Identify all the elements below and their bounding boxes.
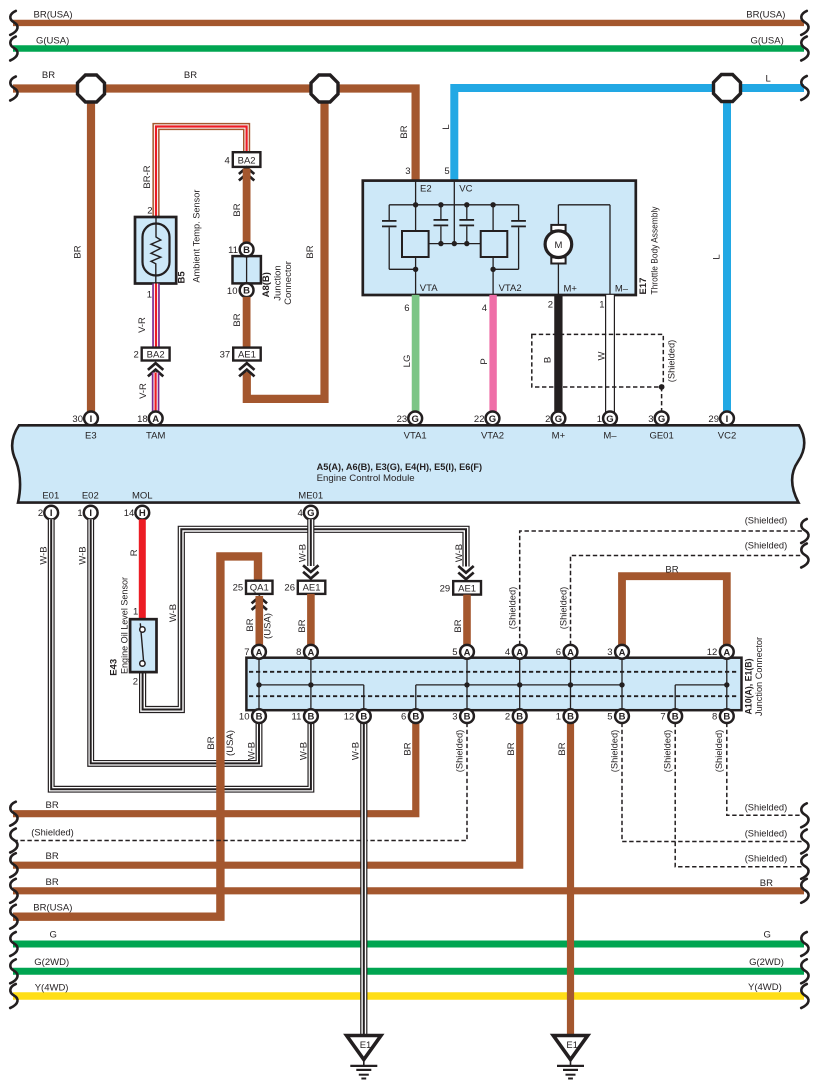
svg-text:A10(A), E1(B): A10(A), E1(B) — [744, 659, 755, 715]
svg-text:37: 37 — [220, 349, 231, 360]
svg-text:6: 6 — [401, 712, 406, 723]
svg-text:W-B: W-B — [247, 742, 258, 760]
pin 2 label E43 — [133, 677, 138, 688]
A10 pin 3A — [607, 645, 629, 659]
A10 pin 12B — [344, 709, 371, 723]
ground E1 right — [553, 1036, 587, 1079]
A10 pin 1B — [556, 709, 578, 723]
svg-text:3: 3 — [405, 166, 410, 177]
svg-text:B: B — [672, 712, 679, 723]
svg-text:(Shielded): (Shielded) — [745, 515, 788, 526]
svg-text:(Shielded): (Shielded) — [745, 541, 788, 552]
wire BR from A8(B) pin 10 to AE1 37 — [232, 297, 247, 348]
break symbol left BR bus — [10, 77, 17, 101]
svg-text:E2: E2 — [420, 183, 432, 194]
svg-text:BR: BR — [245, 618, 256, 631]
svg-text:Engine Oil Level Sensor: Engine Oil Level Sensor — [120, 577, 131, 674]
svg-text:G: G — [50, 929, 57, 940]
svg-text:(Shielded): (Shielded) — [663, 730, 674, 773]
svg-text:VTA1: VTA1 — [404, 430, 427, 441]
break symbol right L bus — [801, 76, 808, 100]
svg-text:2: 2 — [505, 712, 510, 723]
svg-text:Connector: Connector — [283, 261, 294, 305]
connector AE1 pin 37 — [220, 348, 261, 361]
svg-text:(Shielded): (Shielded) — [508, 587, 519, 630]
svg-text:M+: M+ — [552, 430, 566, 441]
break symbol shield 6A — [801, 544, 808, 568]
svg-text:(Shielded): (Shielded) — [714, 730, 725, 773]
svg-text:G: G — [658, 414, 665, 425]
node junction octagon 2 — [311, 75, 338, 102]
svg-text:I: I — [89, 508, 92, 519]
ECM pin 1 M- — [597, 412, 617, 426]
svg-text:I: I — [50, 508, 53, 519]
svg-text:L: L — [712, 254, 723, 259]
wire BR loop A10 pin 3A to pin 12A — [622, 564, 727, 645]
break symbols G(2WD) bus — [10, 959, 808, 983]
svg-text:5: 5 — [444, 166, 449, 177]
connector QA1 pin 25 — [233, 581, 273, 594]
wire BR from A10 pin 6B to left edge — [13, 723, 416, 814]
connector AE1 pin 29 — [440, 581, 481, 595]
svg-text:VTA2: VTA2 — [499, 283, 522, 294]
A10 pin 5B — [607, 709, 629, 723]
svg-text:BR-R: BR-R — [142, 165, 153, 188]
svg-text:2: 2 — [38, 508, 43, 519]
ECM pin 18 TAM — [137, 412, 162, 426]
wire W M- to ECM pin 1 M- — [597, 295, 611, 412]
svg-text:BR: BR — [305, 245, 316, 258]
svg-text:I: I — [726, 414, 729, 425]
wire BR from AE1 26 to A10 pin 8A — [297, 594, 311, 646]
svg-text:11: 11 — [228, 245, 238, 256]
wire P VTA2 to ECM pin 22 VTA2 — [479, 295, 493, 412]
svg-text:G(USA): G(USA) — [751, 36, 784, 47]
svg-text:M+: M+ — [564, 284, 578, 295]
wire W-B from E43 pin 2 to AE1 29 — [143, 529, 466, 709]
ECM pin 4 ME01 — [298, 506, 318, 520]
svg-text:7: 7 — [660, 712, 665, 723]
A10 pin 4A — [505, 645, 527, 659]
A10 pin 12A — [707, 645, 734, 659]
svg-text:2: 2 — [134, 349, 139, 360]
ECM top pin labels — [85, 430, 736, 441]
wire L branch to ECM pin 29 VC2 — [712, 88, 728, 412]
wire BR branch to ECM pin 30 E3 — [73, 89, 92, 413]
svg-text:BA2: BA2 — [238, 156, 256, 167]
node junction octagon 1 — [78, 75, 105, 102]
wire G(2WD) bus — [13, 957, 804, 971]
svg-text:A: A — [256, 647, 263, 658]
svg-text:E1: E1 — [360, 1040, 372, 1051]
svg-text:25: 25 — [233, 583, 244, 594]
svg-text:1: 1 — [133, 607, 138, 618]
svg-text:1: 1 — [77, 508, 82, 519]
svg-text:L: L — [766, 73, 771, 84]
node junction octagon 3 — [714, 75, 741, 102]
svg-text:3: 3 — [648, 414, 653, 425]
wire L bus from VC — [441, 73, 804, 180]
svg-text:Junction Connector: Junction Connector — [754, 637, 765, 716]
svg-text:E3: E3 — [85, 430, 97, 441]
svg-text:4: 4 — [482, 303, 487, 314]
svg-text:1: 1 — [599, 300, 604, 311]
svg-text:1: 1 — [556, 712, 561, 723]
ECM pin 14 MOL — [124, 506, 149, 520]
shield lead from A10 pin 7B to right edge — [663, 723, 802, 867]
break symbols Y(4WD) bus — [10, 984, 808, 1008]
svg-text:11: 11 — [292, 712, 302, 723]
svg-text:14: 14 — [124, 508, 135, 519]
ECM pin 1 E02 — [77, 506, 97, 520]
svg-text:(Shielded): (Shielded) — [745, 854, 788, 865]
junction connector A10(A) E1(B) — [246, 637, 765, 716]
svg-text:BR: BR — [206, 736, 217, 749]
svg-text:Ambient Temp. Sensor: Ambient Temp. Sensor — [192, 190, 203, 283]
svg-text:5: 5 — [452, 647, 457, 658]
svg-text:LG: LG — [402, 355, 413, 368]
wire LG VTA to ECM pin 23 VTA1 — [402, 295, 416, 412]
svg-text:(Shielded): (Shielded) — [454, 730, 465, 773]
wire B M+ to ECM pin 2 M+ — [543, 295, 559, 412]
svg-text:BR(USA): BR(USA) — [33, 903, 72, 914]
svg-text:B: B — [243, 286, 250, 297]
ECM pin 23 VTA1 — [397, 412, 422, 426]
ECM bottom pin labels — [42, 490, 323, 501]
pin 5 label VC — [444, 166, 449, 177]
pin 1 label B5 — [147, 290, 152, 301]
svg-text:6: 6 — [404, 303, 409, 314]
svg-text:B: B — [464, 712, 471, 723]
svg-text:5: 5 — [607, 712, 612, 723]
wire BR from A10 pin 1B to ground E1 — [557, 723, 571, 1035]
svg-text:Engine Control Module: Engine Control Module — [317, 473, 415, 484]
svg-text:A: A — [464, 647, 471, 658]
svg-text:E02: E02 — [82, 490, 99, 501]
wire G bus — [13, 929, 804, 944]
svg-text:12: 12 — [707, 647, 718, 658]
svg-text:2: 2 — [548, 300, 553, 311]
svg-text:BR: BR — [557, 742, 568, 755]
wire BR from A10 pin 2B to left edge — [13, 723, 520, 866]
A10 pin 6B — [401, 709, 423, 723]
svg-text:4: 4 — [505, 647, 510, 658]
break symbol right BR(USA) — [801, 11, 808, 35]
A10 pin 7B — [660, 709, 682, 723]
svg-text:BR(USA): BR(USA) — [34, 10, 73, 21]
wire BR(USA) bus to QA1 25 — [13, 556, 258, 916]
svg-text:4: 4 — [225, 156, 230, 167]
svg-text:BR: BR — [453, 619, 464, 632]
svg-text:V-R: V-R — [137, 317, 148, 333]
svg-text:Y(4WD): Y(4WD) — [35, 982, 69, 993]
A10 pin 3B — [452, 709, 474, 723]
break symbol right shield 8B — [801, 803, 808, 827]
shield lead from A10 pin 5B to right edge — [609, 723, 802, 842]
svg-text:G: G — [555, 414, 562, 425]
svg-text:QA1: QA1 — [250, 583, 269, 594]
svg-text:AE1: AE1 — [458, 583, 476, 594]
svg-text:B: B — [567, 712, 574, 723]
wire BR from QA1 to A10 pin 7A — [245, 596, 274, 646]
shield lead from A10 pin 4A to right edge — [508, 515, 803, 645]
wire W-B from A10 pin 12B to ground E1 — [350, 723, 364, 1035]
svg-text:B: B — [307, 712, 314, 723]
A10 pin 6A — [556, 645, 578, 659]
wire W-B from ECM ME01 to AE1 26 — [297, 519, 311, 566]
A10 pin 2B — [505, 709, 527, 723]
break symbol right shield 7B — [801, 855, 808, 879]
wire BR branch octagon2 to AE1 37 — [247, 89, 325, 399]
ECM pin 29 VC2 — [708, 412, 733, 426]
svg-text:BR: BR — [73, 245, 84, 258]
svg-text:VTA2: VTA2 — [481, 430, 504, 441]
shield lead from A10 pin 6A to right edge — [559, 541, 803, 646]
chevron arrows below BA2 pin 2 — [148, 363, 163, 376]
break symbol shield 4A — [801, 519, 808, 543]
svg-text:(Shielded): (Shielded) — [745, 803, 788, 814]
svg-text:BR: BR — [506, 742, 517, 755]
svg-text:W-B: W-B — [168, 604, 179, 622]
wire BR bus full width — [13, 877, 804, 891]
svg-text:1: 1 — [597, 414, 602, 425]
svg-text:BR: BR — [46, 877, 59, 888]
svg-text:Y(4WD): Y(4WD) — [748, 982, 782, 993]
svg-text:2: 2 — [545, 414, 550, 425]
svg-text:VTA: VTA — [420, 283, 438, 294]
svg-text:E1: E1 — [566, 1040, 578, 1051]
ground E1 left — [347, 1036, 381, 1079]
svg-text:W-B: W-B — [454, 544, 465, 562]
connector BA2 pin 4 — [225, 152, 261, 167]
svg-text:A: A — [619, 647, 626, 658]
svg-text:E01: E01 — [42, 490, 59, 501]
svg-text:VC2: VC2 — [718, 430, 736, 441]
svg-text:8: 8 — [296, 647, 301, 658]
svg-text:29: 29 — [440, 583, 451, 594]
svg-text:B: B — [256, 712, 263, 723]
svg-text:E43: E43 — [109, 659, 120, 676]
svg-text:G: G — [412, 414, 419, 425]
svg-text:B: B — [723, 712, 730, 723]
svg-text:BR: BR — [297, 619, 308, 632]
engine control module band — [12, 425, 804, 502]
break symbol left shield 3B — [10, 829, 17, 853]
svg-text:AE1: AE1 — [303, 583, 321, 594]
svg-text:6: 6 — [556, 647, 561, 658]
A10 pin 7A — [244, 645, 266, 659]
svg-text:ME01: ME01 — [298, 490, 323, 501]
svg-text:W-B: W-B — [298, 742, 309, 760]
chevron arrows below AE1 37 — [239, 363, 254, 376]
svg-text:(Shielded): (Shielded) — [559, 587, 570, 630]
svg-text:W-B: W-B — [78, 546, 89, 564]
wire Y(4WD) bus — [13, 982, 804, 996]
svg-text:3: 3 — [452, 712, 457, 723]
wire V-R from B5 pin 1 to BA2 pin 2 — [137, 284, 156, 348]
break symbol left BR(USA) — [10, 11, 17, 35]
break symbol right shield 5B — [801, 830, 808, 854]
svg-text:2: 2 — [147, 206, 152, 217]
svg-text:Junction: Junction — [273, 265, 284, 300]
svg-text:29: 29 — [708, 414, 719, 425]
svg-text:BR: BR — [46, 851, 59, 862]
svg-text:12: 12 — [344, 712, 355, 723]
svg-text:MOL: MOL — [132, 490, 153, 501]
wire R from ECM MOL to E43 pin 1 — [129, 519, 142, 619]
svg-text:B: B — [360, 712, 367, 723]
svg-text:10: 10 — [239, 712, 250, 723]
svg-text:AE1: AE1 — [238, 349, 256, 360]
svg-text:I: I — [90, 414, 93, 425]
svg-text:BR: BR — [232, 313, 243, 326]
A10 pin 5A — [452, 645, 474, 659]
svg-text:1: 1 — [147, 290, 152, 301]
connector AE1 pin 26 — [284, 581, 325, 594]
A10 pin 11B — [292, 709, 318, 723]
svg-text:G(2WD): G(2WD) — [749, 957, 784, 968]
svg-text:G(2WD): G(2WD) — [34, 957, 69, 968]
svg-text:A: A — [516, 647, 523, 658]
shield drain node dot — [659, 384, 665, 390]
ECM pin 3 GE01 — [648, 412, 668, 426]
wire BR bus to E2 — [13, 70, 416, 181]
svg-text:26: 26 — [284, 583, 295, 594]
svg-text:GE01: GE01 — [649, 430, 673, 441]
svg-text:TAM: TAM — [146, 430, 165, 441]
svg-text:W-B: W-B — [39, 546, 50, 564]
chevron arrows above AE1 29 — [458, 566, 473, 579]
A10 pin 8A — [296, 645, 318, 659]
svg-text:A: A — [723, 647, 730, 658]
svg-text:(Shielded): (Shielded) — [31, 827, 74, 838]
svg-text:BR: BR — [42, 70, 55, 81]
ECM pin 30 E3 — [72, 412, 97, 426]
ECM pin 2 E01 — [38, 506, 58, 520]
svg-text:3: 3 — [607, 647, 612, 658]
svg-text:W: W — [597, 351, 608, 360]
svg-text:E17: E17 — [638, 278, 649, 295]
engine oil level sensor E43 — [109, 577, 157, 676]
svg-text:Throttle Body Assembly: Throttle Body Assembly — [650, 206, 661, 294]
wire V-R from BA2 to ECM pin 18 TAM — [138, 373, 156, 413]
svg-text:10: 10 — [227, 286, 238, 297]
svg-text:W-B: W-B — [297, 544, 308, 562]
break symbol right G(USA) — [801, 37, 808, 61]
ECM pin 22 VTA2 — [474, 412, 499, 426]
svg-text:8: 8 — [712, 712, 717, 723]
svg-text:4: 4 — [298, 508, 303, 519]
svg-text:22: 22 — [474, 414, 485, 425]
chevron arrows below BA2 pin 4 — [239, 167, 254, 180]
svg-text:BR(USA): BR(USA) — [746, 10, 785, 21]
break symbols BR bus — [10, 879, 808, 903]
svg-text:A8(B): A8(B) — [261, 272, 272, 297]
chevron arrows above AE1 26 — [303, 565, 318, 578]
pin 2 label B5 — [147, 206, 152, 217]
throttle body assembly E17 — [363, 181, 661, 295]
svg-text:M: M — [554, 240, 562, 251]
svg-text:(USA): (USA) — [263, 613, 274, 639]
svg-text:H: H — [139, 508, 146, 519]
pin 10 B circle A8(B) — [227, 283, 254, 297]
svg-text:(Shielded): (Shielded) — [667, 340, 678, 383]
wire BR-R from B5 pin 2 to BA2 pin 4 — [142, 127, 247, 218]
svg-text:B: B — [516, 712, 523, 723]
svg-text:V-R: V-R — [138, 383, 149, 399]
break symbol left BR 6B — [10, 802, 17, 826]
break symbol left G(USA) — [10, 37, 17, 61]
break symbol left BR 2B — [10, 853, 17, 877]
svg-text:BA2: BA2 — [147, 349, 165, 360]
svg-text:18: 18 — [137, 414, 148, 425]
svg-text:B: B — [619, 712, 626, 723]
svg-text:G: G — [489, 414, 496, 425]
wire W-B from ECM E01 to A10 pin 11B — [39, 519, 311, 789]
ECM pin 2 M+ — [545, 412, 565, 426]
wire G(USA) bus — [13, 36, 804, 49]
svg-text:BR: BR — [46, 800, 59, 811]
svg-text:BR: BR — [402, 742, 413, 755]
svg-text:A: A — [307, 647, 314, 658]
svg-text:B: B — [543, 357, 554, 363]
svg-text:A5(A), A6(B), E3(G), E4(H), E5: A5(A), A6(B), E3(G), E4(H), E5(I), E6(F) — [317, 462, 483, 473]
svg-text:30: 30 — [72, 414, 83, 425]
svg-text:VC: VC — [459, 183, 472, 194]
svg-text:B: B — [412, 712, 419, 723]
ambient temp sensor B5 — [135, 190, 203, 284]
svg-text:B: B — [243, 245, 250, 256]
svg-text:R: R — [129, 549, 140, 556]
pin 1 label E43 — [133, 607, 138, 618]
shield drain wire to GE01 — [661, 387, 663, 412]
svg-text:B5: B5 — [176, 271, 187, 284]
wire BR from BA2 4 to A8(B) pin 11 — [232, 169, 247, 244]
wire BR from AE1 29 to A10 pin 5A — [453, 595, 467, 646]
svg-text:P: P — [479, 358, 490, 364]
svg-text:BR: BR — [184, 70, 197, 81]
svg-text:A: A — [567, 647, 574, 658]
shield lead from A10 pin 3B to left edge — [13, 723, 467, 841]
svg-text:G: G — [307, 508, 314, 519]
svg-text:M–: M– — [603, 430, 617, 441]
svg-text:7: 7 — [244, 647, 249, 658]
pin 11 B circle A8(B) — [228, 243, 253, 257]
svg-text:BR: BR — [760, 878, 773, 889]
wire W-B from ECM E02 to A10 pin 10B — [78, 519, 260, 763]
A10 pin 10B — [239, 709, 266, 723]
svg-text:L: L — [441, 124, 452, 129]
svg-text:G: G — [606, 414, 613, 425]
svg-text:BR: BR — [665, 564, 678, 575]
chevron arrows below QA1 — [252, 597, 267, 610]
wire BR(USA) bus top — [13, 10, 804, 23]
svg-text:A: A — [152, 414, 159, 425]
svg-text:W-B: W-B — [350, 742, 361, 760]
break symbols G bus — [10, 932, 808, 956]
svg-text:G(USA): G(USA) — [36, 36, 69, 47]
svg-text:23: 23 — [397, 414, 408, 425]
svg-text:(Shielded): (Shielded) — [609, 730, 620, 773]
break symbol left BR(USA) bottom — [10, 905, 17, 929]
svg-text:BR: BR — [399, 125, 410, 138]
svg-text:M–: M– — [615, 284, 629, 295]
pin 3 label E2 — [405, 166, 410, 177]
A10 pin 8B — [712, 709, 734, 723]
shield box around B and W wires — [532, 334, 678, 387]
svg-text:(Shielded): (Shielded) — [745, 828, 788, 839]
svg-text:(USA): (USA) — [225, 730, 236, 756]
